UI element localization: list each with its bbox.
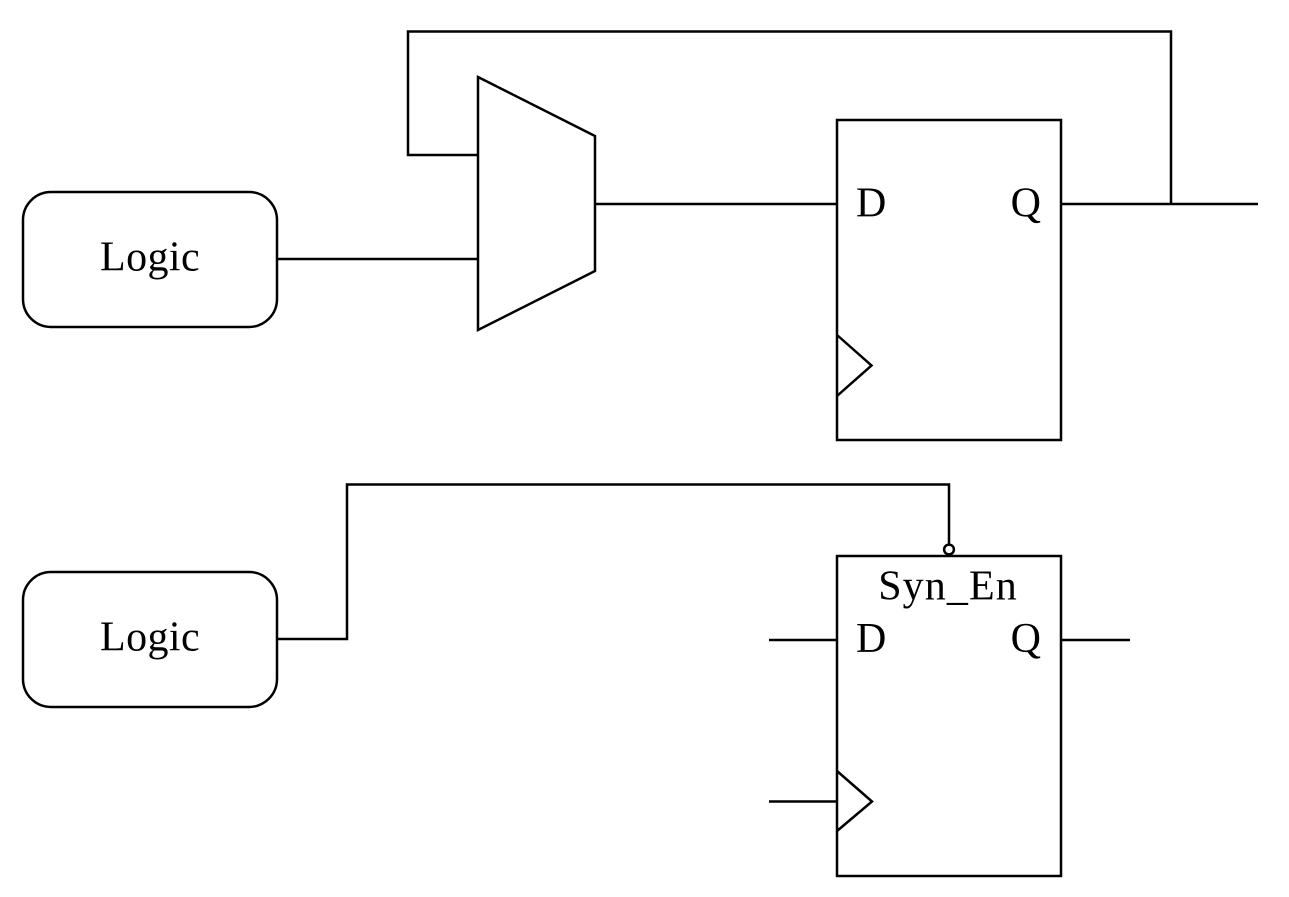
- logic block U1: [23, 192, 277, 327]
- multiplexer MUX1: [478, 77, 595, 330]
- svg-text:D: D: [856, 616, 886, 662]
- clock input triangle (U4): [837, 771, 872, 831]
- wire U3 output to Syn_En input of U4: [277, 485, 949, 640]
- svg-text:Syn_En: Syn_En: [878, 564, 1018, 610]
- inverter bubble on Syn_En pin: [944, 545, 954, 555]
- svg-text:Logic: Logic: [100, 235, 200, 281]
- svg-text:Q: Q: [1011, 181, 1041, 227]
- wire Q1 output net: [1061, 203, 1258, 206]
- flip-flop U4 body: [837, 556, 1061, 876]
- clock input triangle (U2): [837, 335, 872, 396]
- svg-text:Q: Q: [1011, 616, 1041, 662]
- wire Q output of U4: [1061, 639, 1130, 642]
- wire U1 output to mux data input: [277, 258, 479, 261]
- wire D input of U4: [769, 639, 837, 642]
- logic block U3: [23, 572, 277, 707]
- wire clock input of U4: [769, 800, 837, 803]
- svg-text:Logic: Logic: [100, 615, 200, 661]
- wire mux select feedback (from Q1 net up and over to mux): [408, 32, 1171, 205]
- wire mux output to D input of U2: [595, 203, 837, 206]
- svg-text:D: D: [856, 181, 886, 227]
- flip-flop U2 body: [837, 120, 1061, 440]
